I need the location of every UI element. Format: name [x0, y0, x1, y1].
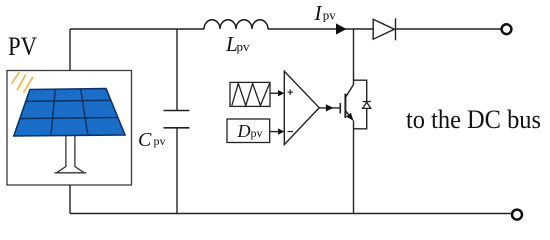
arrowhead to + input	[278, 90, 284, 96]
svg-text:pv: pv	[237, 39, 251, 54]
IGBT Q1 gate bar	[339, 103, 341, 114]
terminal - (DC bus negative)	[512, 210, 522, 220]
wire carrier to comparator +	[270, 92, 279, 94]
svg-text:PV: PV	[8, 31, 37, 61]
wire top bus left segment	[70, 28, 204, 30]
comparator U1	[284, 71, 319, 144]
arrowhead to - input	[278, 128, 284, 134]
diode cathode bar	[395, 18, 397, 40]
IGBT collector lead	[345, 85, 353, 98]
capacitor Cpv bottom plate	[164, 127, 190, 129]
wire Dpv to comparator -	[270, 131, 279, 133]
solar panel	[14, 89, 125, 136]
wire branch top to freewheel diode	[354, 80, 367, 129]
triangle-wave symbol	[232, 83, 270, 105]
arrowhead gate drive	[326, 104, 334, 111]
wire capacitor top	[176, 29, 178, 111]
freewheel diode cathode bar	[363, 101, 371, 103]
svg-text:pv: pv	[154, 134, 166, 148]
terminal + (DC bus positive)	[502, 24, 512, 34]
emitter arrowhead	[346, 113, 353, 121]
wire emitter down to bottom bus	[353, 120, 355, 213]
wire capacitor bottom	[176, 128, 178, 214]
IGBT emitter lead	[345, 111, 352, 120]
wire comparator output to gate	[319, 107, 340, 109]
wire PV box top to top bus	[69, 29, 71, 71]
svg-text:I: I	[314, 1, 323, 25]
panel stand	[55, 135, 87, 173]
svg-text:C: C	[138, 129, 152, 151]
current arrow Ipv	[336, 23, 347, 34]
block Dpv (duty cycle)	[227, 119, 270, 143]
sun rays	[12, 73, 33, 92]
capacitor Cpv top plate	[164, 110, 190, 112]
wire collector to top bus junction	[353, 29, 355, 85]
wire top bus right segment	[396, 28, 500, 30]
inductor Lpv	[204, 20, 268, 29]
svg-text:pv: pv	[323, 7, 337, 22]
PV source box	[7, 71, 132, 186]
svg-text:D: D	[237, 121, 251, 141]
wire PV box bottom	[69, 185, 71, 214]
IGBT body bar	[344, 94, 346, 118]
minus sign	[288, 131, 294, 133]
svg-text:to the DC bus: to the DC bus	[406, 104, 541, 134]
triangle-wave generator box	[230, 82, 270, 106]
diode D (boost diode)	[373, 19, 394, 39]
svg-text:pv: pv	[251, 126, 263, 140]
bottom bus wire	[70, 213, 511, 215]
freewheel diode triangle	[363, 102, 371, 108]
wire top bus middle segment	[268, 28, 373, 30]
plus sign	[288, 89, 294, 95]
